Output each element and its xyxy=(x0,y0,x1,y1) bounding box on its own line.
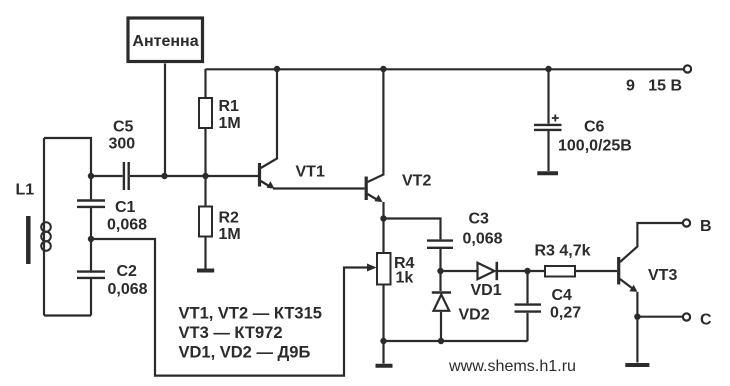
transistor VT1 collector xyxy=(261,69,277,168)
svg-text:www.shems.h1.ru: www.shems.h1.ru xyxy=(448,357,576,375)
wire node to R3 xyxy=(528,270,546,272)
capacitor C1 xyxy=(77,201,105,207)
svg-text:1M: 1M xyxy=(219,115,241,132)
svg-text:C5: C5 xyxy=(113,119,134,136)
terminal +9..15V xyxy=(684,65,691,72)
svg-text:VT3: VT3 xyxy=(648,267,677,284)
node antenna junction xyxy=(161,173,167,179)
diode VD2 xyxy=(434,295,450,311)
wire VD2 to bottom rail xyxy=(440,312,442,341)
ground R2 xyxy=(197,269,214,273)
top power rail xyxy=(206,68,684,70)
wire tank top xyxy=(44,138,91,176)
svg-text:L1: L1 xyxy=(16,182,35,199)
bottom rail wire xyxy=(384,340,528,342)
node VT3 emitter junction xyxy=(634,314,640,320)
node R1 R2 base junction xyxy=(202,173,208,179)
wire VT3 emitter down xyxy=(636,292,638,317)
svg-text:VT3 — КТ972: VT3 — КТ972 xyxy=(179,324,283,342)
diode VD1 xyxy=(478,263,495,280)
svg-text:VT2: VT2 xyxy=(402,173,431,190)
terminal C xyxy=(683,313,690,320)
capacitor C3 xyxy=(427,241,453,248)
transistor VT2 emitter xyxy=(368,194,379,201)
wire node to R2 xyxy=(204,176,206,207)
node C1 C2 junction xyxy=(88,236,94,242)
svg-text:100,0/25В: 100,0/25В xyxy=(558,138,632,155)
svg-text:C3: C3 xyxy=(469,211,490,228)
svg-text:300: 300 xyxy=(109,136,136,153)
svg-text:C6: C6 xyxy=(584,119,605,136)
wire VD node to VD2 xyxy=(439,271,441,291)
resistor R2 xyxy=(199,207,212,237)
wire node to C4 xyxy=(526,271,528,303)
wire feedback to R4 wiper xyxy=(91,239,369,376)
wire L1 branch xyxy=(43,138,45,316)
diode VD1 cathode bar xyxy=(495,262,498,280)
transistor VT3 collector xyxy=(620,223,683,262)
resistor R4 xyxy=(377,253,391,285)
svg-text:1M: 1M xyxy=(219,226,241,243)
ground R4 xyxy=(376,364,393,368)
wire node to C2 xyxy=(90,239,92,270)
capacitor C6 xyxy=(534,125,562,130)
node VD junction xyxy=(437,268,443,274)
capacitor C6 polarity plus xyxy=(552,115,559,122)
capacitor C4 xyxy=(515,305,542,312)
wire R1 to base node xyxy=(204,128,206,176)
svg-text:В: В xyxy=(700,218,712,235)
transistor VT2 base bar xyxy=(365,177,368,201)
terminal B xyxy=(683,219,690,226)
svg-text:VT1: VT1 xyxy=(296,164,325,181)
main wire C5 line left xyxy=(91,175,123,177)
node VD2 bottom junction xyxy=(438,338,444,344)
node C6 rail junction xyxy=(545,66,551,72)
svg-text:VD2: VD2 xyxy=(459,307,490,324)
wire VD1 to R3 node xyxy=(498,270,528,272)
wire VD node to VD1 xyxy=(441,270,478,272)
wire rail to R1 xyxy=(204,69,206,98)
capacitor C5 xyxy=(124,162,129,190)
node R4 bottom junction xyxy=(380,338,386,344)
wire VT3 emitter node to ground xyxy=(636,317,638,363)
transistor VT2 collector xyxy=(368,69,384,182)
wire VT2 emitter to R4 xyxy=(382,219,384,254)
transistor VT3 emitter xyxy=(620,279,633,289)
node VT2 collector rail xyxy=(380,66,386,72)
svg-text:VD1, VD2 — Д9Б: VD1, VD2 — Д9Б xyxy=(179,344,311,362)
arrow R4 wiper xyxy=(367,264,377,272)
node C5 left junction xyxy=(88,173,94,179)
svg-text:9 15 В: 9 15 В xyxy=(626,78,682,95)
node VT2 emitter junction xyxy=(380,215,386,221)
diode VD2 cathode bar xyxy=(432,291,451,294)
svg-text:1k: 1k xyxy=(396,270,414,287)
svg-text:VT1, VT2 — КТ315: VT1, VT2 — КТ315 xyxy=(179,305,322,323)
wire R4 node to ground xyxy=(382,341,384,364)
node R3 C4 junction xyxy=(524,268,530,274)
inductor L1 core bar xyxy=(26,216,31,264)
wire rail to C6 xyxy=(547,69,549,124)
wire C6 to ground xyxy=(547,131,549,171)
resistor R3 xyxy=(545,266,575,277)
svg-text:VD1: VD1 xyxy=(471,282,502,299)
main wire C5 to VT1 base xyxy=(130,175,258,177)
wire VT2 emitter down xyxy=(382,202,384,219)
svg-text:0,068: 0,068 xyxy=(108,281,148,298)
svg-text:R3 4,7k: R3 4,7k xyxy=(535,243,591,260)
transistor VT1 emitter xyxy=(261,181,272,188)
wire tank bottom xyxy=(44,314,91,316)
wire VT2 emitter node to C3 xyxy=(384,219,441,240)
svg-text:0,068: 0,068 xyxy=(107,217,147,234)
svg-text:R2: R2 xyxy=(219,210,240,227)
ground C6 xyxy=(537,171,558,175)
transistor VT3 base bar xyxy=(617,257,620,285)
capacitor C2 xyxy=(77,272,105,278)
VT1 emitter arrow xyxy=(267,181,275,188)
wire VT3 emitter to terminal C xyxy=(637,316,683,318)
wire antenna to main node xyxy=(164,64,166,177)
svg-text:R1: R1 xyxy=(219,98,240,115)
wire R3 to VT3 base xyxy=(575,270,617,272)
wire VT1 emitter to VT2 base xyxy=(273,187,365,189)
wire C1 to C2 node xyxy=(90,208,92,239)
wire C4 to bottom rail xyxy=(526,313,528,341)
inductor L1 coil xyxy=(41,222,51,232)
svg-text:C2: C2 xyxy=(117,263,138,280)
transistor VT1 base bar xyxy=(258,163,261,187)
svg-text:C1: C1 xyxy=(115,199,136,216)
svg-text:0,27: 0,27 xyxy=(550,305,581,322)
VT2 emitter arrow xyxy=(375,195,383,202)
wire R2 to ground xyxy=(204,237,206,269)
resistor R1 xyxy=(199,98,212,128)
wire R4 to bottom node xyxy=(382,285,384,342)
svg-text:С: С xyxy=(700,312,712,329)
wire node to C1 xyxy=(90,176,92,199)
ground VT3 xyxy=(625,363,649,367)
node VT1 collector rail xyxy=(274,66,280,72)
wire C3 to VD node xyxy=(439,249,441,271)
VT3 emitter arrow xyxy=(629,285,637,292)
svg-text:0,068: 0,068 xyxy=(463,231,503,248)
svg-text:C4: C4 xyxy=(552,287,573,304)
antenna box xyxy=(128,18,203,62)
wire C2 to tank bottom xyxy=(90,279,92,316)
svg-text:Антенна: Антенна xyxy=(132,33,198,50)
